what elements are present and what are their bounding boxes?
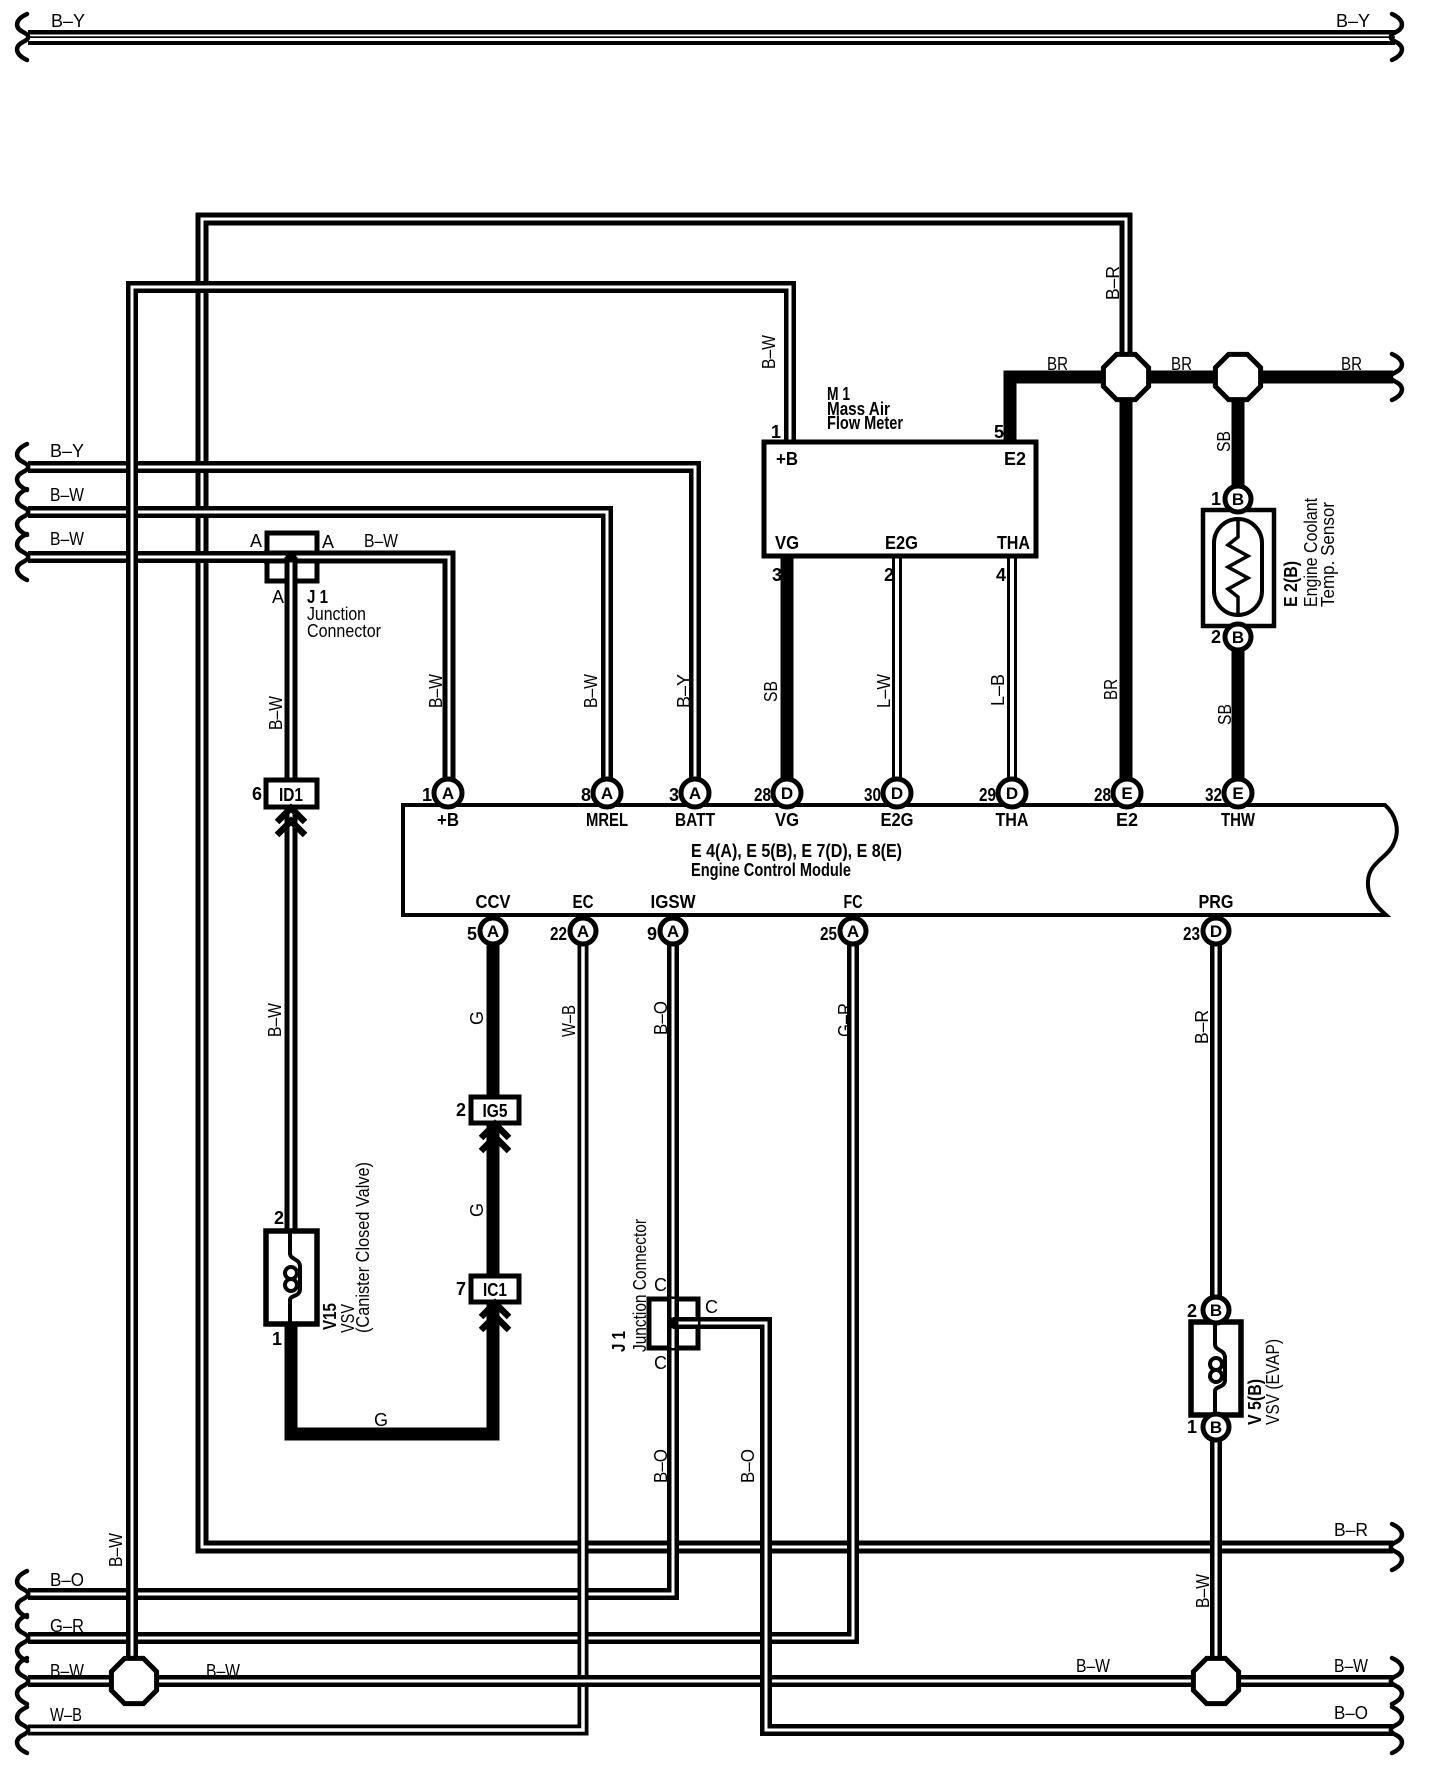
svg-text:1: 1 xyxy=(272,1329,282,1349)
svg-text:B–R: B–R xyxy=(1192,1010,1212,1044)
svg-text:B–W: B–W xyxy=(581,674,601,708)
svg-text:B–Y: B–Y xyxy=(674,674,694,708)
svg-text:SB: SB xyxy=(761,681,781,702)
svg-text:B: B xyxy=(1232,490,1244,509)
svg-text:VSV (EVAP): VSV (EVAP) xyxy=(1263,1339,1283,1425)
svg-text:E2G: E2G xyxy=(885,533,918,553)
svg-text:B–W: B–W xyxy=(1334,1656,1368,1676)
svg-text:VG: VG xyxy=(775,533,799,553)
svg-text:B–R: B–R xyxy=(1103,266,1123,300)
svg-text:Temp. Sensor: Temp. Sensor xyxy=(1318,502,1338,607)
svg-text:B–Y: B–Y xyxy=(50,441,84,461)
svg-text:6: 6 xyxy=(252,784,262,804)
svg-text:G: G xyxy=(467,1203,487,1217)
svg-text:A: A xyxy=(601,784,613,803)
svg-text:E: E xyxy=(1121,784,1132,803)
svg-text:A: A xyxy=(667,922,679,941)
svg-text:BR: BR xyxy=(1101,679,1121,700)
svg-text:E2G: E2G xyxy=(881,810,914,830)
svg-text:9: 9 xyxy=(647,924,657,944)
svg-text:1: 1 xyxy=(422,785,432,805)
svg-text:28: 28 xyxy=(754,785,771,805)
svg-text:J 1: J 1 xyxy=(609,1331,629,1352)
svg-text:IG5: IG5 xyxy=(483,1101,508,1121)
svg-text:SB: SB xyxy=(1215,704,1235,725)
svg-text:FC: FC xyxy=(844,892,863,912)
svg-text:+B: +B xyxy=(437,810,459,830)
svg-text:B: B xyxy=(1210,1301,1222,1320)
svg-text:B–W: B–W xyxy=(1076,1656,1110,1676)
svg-text:BR: BR xyxy=(1171,354,1192,374)
svg-text:B–W: B–W xyxy=(50,1661,84,1681)
svg-text:B–O: B–O xyxy=(738,1449,758,1483)
svg-text:VG: VG xyxy=(775,810,799,830)
svg-text:B–O: B–O xyxy=(651,1449,671,1483)
svg-text:BATT: BATT xyxy=(675,810,715,830)
svg-text:30: 30 xyxy=(864,785,881,805)
svg-text:23: 23 xyxy=(1183,924,1200,944)
svg-text:3: 3 xyxy=(669,785,679,805)
svg-text:A: A xyxy=(272,587,284,607)
svg-text:E2: E2 xyxy=(1116,810,1138,830)
svg-text:THA: THA xyxy=(996,810,1029,830)
svg-text:29: 29 xyxy=(979,785,996,805)
svg-text:3: 3 xyxy=(772,565,782,585)
svg-text:B–O: B–O xyxy=(651,1001,671,1035)
svg-text:D: D xyxy=(1210,922,1222,941)
svg-text:B: B xyxy=(1210,1418,1222,1437)
svg-text:G: G xyxy=(467,1011,487,1025)
svg-text:B–W: B–W xyxy=(266,696,286,730)
svg-text:E: E xyxy=(1232,784,1243,803)
svg-text:G–R: G–R xyxy=(50,1616,84,1636)
svg-text:D: D xyxy=(781,784,793,803)
svg-text:C: C xyxy=(654,1353,667,1373)
svg-text:V15: V15 xyxy=(320,1303,340,1330)
svg-text:W–B: W–B xyxy=(50,1705,82,1725)
svg-text:B: B xyxy=(1232,628,1244,647)
svg-text:28: 28 xyxy=(1094,785,1111,805)
svg-text:SB: SB xyxy=(1214,431,1234,452)
svg-text:B–Y: B–Y xyxy=(1336,11,1370,31)
svg-text:L–W: L–W xyxy=(874,674,894,708)
svg-text:B–W: B–W xyxy=(206,1661,240,1681)
svg-text:BR: BR xyxy=(1341,354,1362,374)
svg-text:B–W: B–W xyxy=(50,485,84,505)
svg-text:5: 5 xyxy=(994,422,1004,442)
svg-text:THW: THW xyxy=(1221,810,1255,830)
svg-text:8: 8 xyxy=(581,785,591,805)
svg-text:1: 1 xyxy=(1211,489,1221,509)
svg-text:IGSW: IGSW xyxy=(651,892,696,912)
svg-text:B–W: B–W xyxy=(759,335,779,369)
svg-text:2: 2 xyxy=(884,565,894,585)
svg-text:32: 32 xyxy=(1205,785,1222,805)
svg-text:25: 25 xyxy=(820,924,837,944)
svg-text:Engine Control Module: Engine Control Module xyxy=(691,860,851,880)
svg-text:B–W: B–W xyxy=(364,531,398,551)
svg-text:B–W: B–W xyxy=(50,529,84,549)
svg-text:B–W: B–W xyxy=(106,1533,126,1567)
svg-text:1: 1 xyxy=(1187,1417,1197,1437)
svg-text:1: 1 xyxy=(771,422,781,442)
svg-text:E2: E2 xyxy=(1004,449,1026,469)
svg-text:A: A xyxy=(577,922,589,941)
svg-text:Junction Connector: Junction Connector xyxy=(630,1219,650,1352)
svg-text:2: 2 xyxy=(1211,627,1221,647)
svg-text:D: D xyxy=(1006,784,1018,803)
svg-text:2: 2 xyxy=(456,1100,466,1120)
svg-text:2: 2 xyxy=(1187,1301,1197,1321)
svg-text:CCV: CCV xyxy=(476,892,511,912)
svg-text:C: C xyxy=(654,1275,667,1295)
svg-text:A: A xyxy=(847,922,859,941)
svg-text:D: D xyxy=(891,784,903,803)
svg-text:(Canister Closed Valve): (Canister Closed Valve) xyxy=(353,1162,373,1333)
svg-text:22: 22 xyxy=(550,924,567,944)
svg-text:G–R: G–R xyxy=(835,1003,855,1037)
svg-text:IC1: IC1 xyxy=(483,1280,507,1300)
svg-text:EC: EC xyxy=(573,892,594,912)
svg-text:E 2(B): E 2(B) xyxy=(1281,561,1301,607)
svg-text:2: 2 xyxy=(274,1208,284,1228)
svg-text:MREL: MREL xyxy=(586,810,628,830)
svg-text:B–W: B–W xyxy=(1193,1574,1213,1608)
svg-text:A: A xyxy=(322,532,334,552)
svg-text:B–W: B–W xyxy=(426,674,446,708)
svg-text:Flow Meter: Flow Meter xyxy=(827,413,903,433)
svg-text:B–O: B–O xyxy=(50,1570,84,1590)
svg-text:E 4(A), E 5(B), E 7(D), E 8(E): E 4(A), E 5(B), E 7(D), E 8(E) xyxy=(691,841,902,861)
svg-text:G: G xyxy=(374,1410,388,1430)
svg-text:THA: THA xyxy=(997,533,1030,553)
svg-text:B–W: B–W xyxy=(265,1003,285,1037)
svg-text:L–B: L–B xyxy=(988,674,1008,706)
svg-text:A: A xyxy=(689,784,701,803)
svg-text:A: A xyxy=(442,784,454,803)
svg-text:W–B: W–B xyxy=(559,1005,579,1037)
svg-text:B–Y: B–Y xyxy=(51,11,85,31)
svg-text:5: 5 xyxy=(467,924,477,944)
svg-text:A: A xyxy=(250,531,262,551)
svg-text:C: C xyxy=(705,1297,718,1317)
svg-text:V 5(B): V 5(B) xyxy=(1245,1379,1265,1425)
svg-text:Connector: Connector xyxy=(307,621,381,641)
svg-text:B–R: B–R xyxy=(1334,1520,1368,1540)
svg-text:ID1: ID1 xyxy=(279,785,303,805)
svg-text:PRG: PRG xyxy=(1199,892,1234,912)
svg-text:BR: BR xyxy=(1047,354,1068,374)
svg-text:A: A xyxy=(487,922,499,941)
svg-text:+B: +B xyxy=(776,449,798,469)
svg-text:B–O: B–O xyxy=(1334,1703,1368,1723)
svg-text:4: 4 xyxy=(996,565,1006,585)
svg-text:7: 7 xyxy=(456,1279,466,1299)
